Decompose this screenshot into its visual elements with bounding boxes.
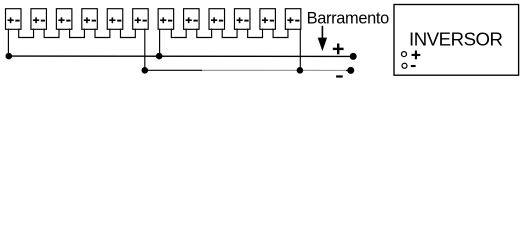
battery B5 [107, 9, 123, 30]
wire negative busbar [145, 69, 202, 71]
battery B8 [184, 9, 200, 30]
wire series link B3-B4 [70, 29, 85, 38]
barramento pointer arrow [318, 26, 327, 51]
node string2 - junction [297, 67, 304, 74]
wire positive busbar [8, 55, 353, 57]
battery B3 [56, 9, 72, 30]
inverter box U1 [394, 5, 519, 76]
node string1 - junction [142, 67, 149, 74]
battery B12 [285, 9, 301, 30]
node inverter - terminal circle [402, 63, 407, 68]
wire string1 negative feeder [144, 29, 146, 71]
wire series link B9-B10 [222, 29, 237, 38]
wire series link B4-B5 [95, 29, 110, 38]
label - at negative bus [336, 75, 343, 77]
battery B1 [6, 9, 22, 30]
battery B2 [31, 9, 47, 30]
node positive bus end terminal [350, 53, 357, 60]
label inverter - [411, 65, 416, 67]
label + at positive bus [333, 44, 344, 55]
wire series link B11-B12 [273, 29, 288, 38]
wire series link B1-B2 [19, 29, 34, 38]
battery B9 [209, 9, 225, 30]
wire series link B7-B8 [171, 29, 186, 38]
battery B4 [82, 9, 98, 30]
battery B10 [234, 9, 250, 30]
label inverter + [412, 51, 421, 60]
wire series link B10-B11 [248, 29, 263, 38]
node negative bus end terminal [347, 67, 354, 74]
svg-text:Barramento: Barramento [307, 9, 390, 27]
wire string2 negative feeder [299, 29, 301, 71]
wire string1 positive feeder [7, 29, 9, 56]
wire series link B2-B3 [44, 29, 59, 38]
battery B11 [260, 9, 276, 30]
wire string2 positive feeder [159, 29, 161, 57]
node inverter + terminal circle [402, 52, 407, 57]
wire series link B5-B6 [120, 29, 135, 38]
battery B6 [133, 9, 149, 30]
wire series link B8-B9 [197, 29, 212, 38]
node string2 + junction [156, 53, 163, 60]
node string1 + junction [6, 53, 13, 60]
battery B7 [158, 9, 174, 30]
svg-text:INVERSOR: INVERSOR [409, 28, 503, 49]
